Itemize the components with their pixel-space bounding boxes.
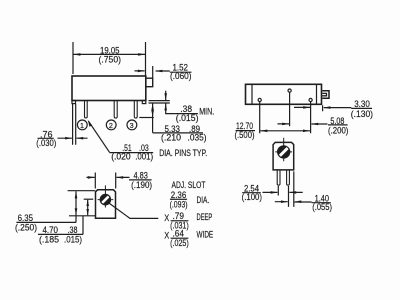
front view adjustment screw [98,185,114,207]
dim .38 fraction bar [175,113,198,115]
pin 2 number circle [106,120,116,130]
svg-text:3.30: 3.30 [354,99,370,109]
svg-text:(.055): (.055) [312,202,332,212]
svg-text:ADJ. SLOT: ADJ. SLOT [172,180,206,190]
fraction bar 2.36 [170,199,187,200]
dim .76 extension lines [73,104,76,145]
rear view body [273,142,294,170]
svg-text:X: X [164,230,169,240]
dim .38 up arrow and leader [166,103,175,113]
dim 12.70 line with arrows [260,130,310,132]
dim .38 down arrow [165,91,167,101]
standoff gap line lower (seating plane) [149,102,170,104]
svg-text:(.100): (.100) [242,192,262,202]
svg-text:X: X [164,213,169,223]
dim 1.40 fraction bar [312,202,331,204]
top view end bracket [322,91,329,99]
pin 3 number circle [127,120,137,130]
svg-text:(.500): (.500) [235,130,255,140]
dim 5.08 fraction bar [328,124,348,126]
top view pin 1 hole [258,98,261,101]
front view body [96,190,116,219]
dim .76 arrows [58,137,88,139]
rear view right pin [287,170,290,185]
rear view left pin [277,170,280,185]
dim 4.83 extension lines [95,173,115,189]
dim 4.70 fraction bar [38,233,83,235]
side view right standoff foot [142,101,146,104]
svg-text:(.060): (.060) [170,71,192,81]
side view body [72,76,146,101]
pin 3 [134,101,137,119]
dim 4.70 leader [82,216,84,235]
svg-text:.64: .64 [173,229,185,239]
dim 2.54 arrows [263,191,303,193]
fraction bar .64 [171,238,189,239]
dim 19.05 line with arrows [73,53,146,55]
dim 5.33 arrow line [152,103,154,132]
top view extension lines [260,93,323,134]
svg-text:(.250): (.250) [15,222,37,232]
adj slot leader [109,203,158,218]
dim 1.52 fraction bar [170,71,192,73]
dim 6.35 arrow line [75,191,77,222]
dim 3.30 arrows [294,106,351,108]
rear view extension lines [278,171,294,207]
svg-text:(.093): (.093) [170,200,188,210]
top view end bracket tongue [322,93,326,95]
svg-text:(.020: (.020 [111,151,131,161]
svg-text:WIDE: WIDE [197,229,214,239]
svg-text:DEEP: DEEP [197,212,213,222]
dim 6.35 leader [16,221,76,223]
dim 4.70 arrow line [87,200,89,216]
top view right end cap line [316,84,318,104]
svg-text:(.190): (.190) [131,180,152,190]
top view wiper hole [288,89,291,92]
svg-text:2.36: 2.36 [171,190,187,200]
top view left end cap line [251,84,253,104]
svg-text:4.83: 4.83 [134,170,148,180]
svg-text:1: 1 [80,121,84,130]
fraction bar .79 [171,220,189,221]
svg-text:(.015): (.015) [176,113,199,123]
pin dia fraction bar [110,152,154,154]
front view screw center line [84,198,94,200]
front view top extension line [68,190,96,192]
dim 19.05 extension lines [73,42,146,76]
side view left standoff foot [72,101,76,104]
standoff gap line upper [149,100,170,102]
svg-text:6.35: 6.35 [18,213,33,223]
svg-text:(.750): (.750) [99,54,122,64]
svg-text:(.185: (.185 [39,234,59,244]
dim 5.08 arrows [278,123,328,125]
dim 12.70 fraction bar [236,130,256,132]
rear view adjustment screw [275,138,292,162]
dim 1.52 arrows [135,70,170,72]
top view pin 3 hole [309,98,312,101]
front view seating extension line [69,215,95,217]
dim 4.83 fraction bar [129,179,152,181]
dim 2.54 fraction bar [242,192,261,194]
pin 2 [114,101,117,119]
pin dia leader arrow [89,121,110,152]
svg-text:3: 3 [130,121,134,130]
svg-text:.015): .015) [64,234,82,244]
pin 1 number circle [77,120,87,130]
svg-text:(.200): (.200) [328,125,348,135]
svg-text:(.030): (.030) [36,138,56,148]
svg-text:(.130): (.130) [351,109,373,119]
svg-text:MIN.: MIN. [199,107,214,117]
dim 3.30 fraction bar [351,107,372,109]
dim 1.52 extension line [152,66,154,78]
svg-text:DIA. PINS TYP.: DIA. PINS TYP. [159,148,207,158]
svg-text:.001): .001) [135,151,153,161]
dim 1.40 arrows [275,201,312,203]
svg-text:(.025): (.025) [170,238,189,248]
dim .76 fraction bar [38,137,54,139]
svg-text:2: 2 [109,121,113,130]
svg-text:DIA.: DIA. [197,195,210,205]
svg-text:.035): .035) [188,132,207,142]
pin tip extension line [139,117,154,119]
dim 4.83 arrows [87,176,130,178]
pin 1 [85,101,88,118]
dim 5.33 fraction bar [153,132,203,134]
svg-text:(.210: (.210 [161,132,181,142]
side view mounting tab [146,78,153,87]
top view body [246,84,322,104]
